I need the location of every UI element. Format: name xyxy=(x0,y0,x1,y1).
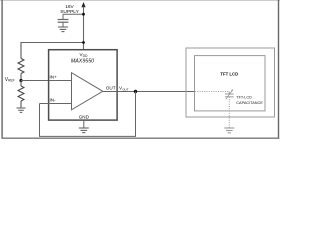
wire: LCD cap to ground (dashed) xyxy=(228,97,230,128)
svg-text:GND: GND xyxy=(79,115,90,120)
junction: VOUT/feedback xyxy=(134,90,137,93)
svg-text:DD: DD xyxy=(83,54,88,58)
ground (R2) xyxy=(17,108,26,112)
svg-text:IN+: IN+ xyxy=(50,75,58,80)
junction: VREF node xyxy=(19,79,22,82)
wire: OUT pin xyxy=(103,91,117,93)
svg-text:MAX9550: MAX9550 xyxy=(71,59,94,65)
wire: VOUT into panel (dashed) xyxy=(195,91,229,93)
svg-text:TFT LCD: TFT LCD xyxy=(220,71,238,76)
label 16V SUPPLY xyxy=(60,4,79,15)
wire: capacitor branch xyxy=(63,13,84,15)
resistor R2 xyxy=(18,81,24,108)
svg-text:OUT: OUT xyxy=(122,87,129,91)
wire: feedback loop xyxy=(40,92,136,137)
ground (C1) xyxy=(58,27,68,32)
pin label VDD xyxy=(80,52,89,58)
op-amp U1 box (MAX9550) xyxy=(49,50,118,120)
resistor R1 xyxy=(18,43,24,81)
svg-text:OUT: OUT xyxy=(106,86,116,91)
border frame xyxy=(0,0,280,139)
label VOUT xyxy=(119,85,129,91)
op-amp triangle xyxy=(72,73,103,110)
svg-text:TFT-LCD: TFT-LCD xyxy=(236,95,252,99)
wire: divider top rail xyxy=(21,43,84,49)
wire: VOUT net xyxy=(117,91,195,93)
svg-text:CAPACITANCE: CAPACITANCE xyxy=(236,101,263,105)
wire: IN- pin xyxy=(40,103,72,105)
wire: VREF to IN+ xyxy=(21,80,72,82)
label TFT-LCD CAPACITANCE xyxy=(236,95,263,105)
svg-text:IN-: IN- xyxy=(50,98,57,103)
ground (LCD) xyxy=(224,128,234,133)
capacitor C1 xyxy=(58,14,69,27)
ground (U1) xyxy=(79,128,89,133)
wire: GND lead xyxy=(83,120,85,128)
junction: supply/divider xyxy=(82,41,85,44)
svg-text:REF: REF xyxy=(8,79,15,83)
junction: supply/cap branch xyxy=(82,13,85,16)
TFT LCD outer box xyxy=(186,48,275,117)
capacitor C-LCD (variable) xyxy=(225,89,234,99)
16V supply arrow xyxy=(81,2,85,50)
TFT LCD inner box xyxy=(195,56,266,111)
node VREF label xyxy=(5,77,15,83)
